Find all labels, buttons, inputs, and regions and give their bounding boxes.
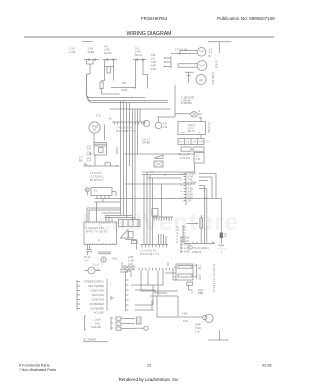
connector circle CB [155, 122, 161, 128]
svg-text:U: U [98, 238, 100, 242]
svg-text:BBB: BBB [198, 292, 203, 295]
stub y185 [199, 186, 205, 244]
legend rows [84, 281, 104, 311]
solenoid lead [101, 89, 103, 95]
elbow wire y198 [95, 198, 221, 232]
y172 dots [164, 174, 166, 176]
svg-text:T-BK: T-BK [151, 55, 157, 57]
connector column CC1 [185, 172, 187, 205]
thermistor TH [200, 218, 203, 228]
bottom legend bracket right [111, 317, 113, 330]
lattice wire 7 [150, 271, 178, 317]
B5 top hatch [86, 222, 115, 224]
B4 drop [194, 163, 196, 172]
double wire [98, 252, 111, 254]
door lamp feed [175, 85, 191, 114]
wires to lamp L2 [178, 64, 197, 67]
arrow wire NR [111, 87, 136, 89]
svg-text:R-DR-BK: R-DR-BK [181, 101, 192, 105]
wire into compressor [104, 125, 106, 141]
switch S2 wiring [102, 60, 114, 82]
svg-text:L1 BK: L1 BK [94, 319, 101, 322]
svg-text:W-BK: W-BK [88, 50, 95, 54]
LC leads [84, 270, 101, 272]
main harness elbow [87, 74, 146, 98]
right label column ticks [181, 236, 183, 253]
svg-text:G W R B: G W R B [180, 157, 190, 160]
cell row B3a [181, 147, 191, 151]
junction dot [179, 53, 181, 55]
lattice wire 4 [135, 285, 153, 305]
sub box feed [161, 184, 163, 217]
svg-text:W R G Y K O B N T: W R G Y K O B N T [86, 231, 108, 234]
svg-text:BK: BK [79, 159, 83, 163]
wire right y180 [199, 180, 208, 182]
tick row R2 [139, 268, 176, 271]
TX left pins [165, 267, 176, 277]
B0 right jog [112, 192, 116, 197]
diode wiring [189, 285, 193, 293]
box B6 [119, 220, 141, 227]
socket labels [195, 324, 201, 334]
svg-text:ICE MAKER: ICE MAKER [90, 308, 104, 311]
svg-text:15A: 15A [224, 233, 227, 238]
svg-text:8 1: 8 1 [94, 190, 98, 193]
ground symbol [208, 330, 229, 340]
CM lead [93, 133, 95, 142]
svg-text:JC TIMET: JC TIMET [83, 338, 97, 342]
bracket mark [111, 296, 114, 300]
control box B1 [178, 122, 206, 135]
cell row B3b [193, 147, 204, 151]
CC2 ticks [183, 227, 186, 242]
svg-text:COMP: COMP [115, 147, 118, 155]
bottom feed wire [157, 296, 203, 317]
wire y166 [83, 163, 120, 166]
svg-text:DEF HEATER: DEF HEATER [88, 285, 104, 288]
label cluster D [135, 47, 142, 57]
bottom wires y178 [147, 177, 181, 179]
label PLUG [189, 246, 209, 254]
TX primary bar [178, 266, 192, 269]
sensor box [154, 161, 163, 167]
fuse row 2 [116, 322, 121, 325]
svg-text:AC LINE: AC LINE [94, 312, 104, 315]
R2 tick stub [167, 262, 169, 266]
svg-text:2-NR: 2-NR [121, 88, 127, 92]
svg-text:1 TM 4 1M: 1 TM 4 1M [175, 49, 187, 52]
diode box [187, 282, 193, 285]
svg-text:POWER SUPPLY: POWER SUPPLY [84, 281, 104, 284]
svg-text:5 1 6 2 0 9 7 1 3 4 8 2 6 1: 5 1 6 2 0 9 7 1 3 4 8 2 6 1 [212, 264, 215, 293]
B1 corner marks [180, 132, 201, 134]
svg-text:GND GR: GND GR [91, 326, 101, 329]
svg-text:EVAP FAN: EVAP FAN [211, 73, 215, 86]
plug symbol [219, 245, 225, 247]
label column E [151, 55, 157, 71]
diode labels [198, 289, 203, 295]
svg-text:6-BR: 6-BR [184, 251, 190, 254]
earth symbol at B0 [85, 188, 89, 192]
svg-text:WIRING DIAGRAM: WIRING DIAGRAM [127, 31, 172, 37]
svg-text:3-BR: 3-BR [151, 66, 157, 68]
lattice wire 3 [131, 271, 163, 286]
bottom wires y172 [142, 171, 195, 173]
svg-text:W G O B R Y T N: W G O B R Y T N [116, 130, 136, 133]
connector cells B2 [178, 139, 204, 145]
TX secondary bar [178, 274, 192, 277]
svg-text:2 R: 2 R [188, 200, 192, 203]
B5 pin labels [86, 227, 108, 234]
right hook wire [120, 262, 135, 272]
svg-text:BK W R G Y: BK W R G Y [90, 179, 104, 182]
pin box B4 [194, 153, 204, 164]
bottom legend rows [91, 312, 104, 330]
svg-text:Publication No: 5995507109: Publication No: 5995507109 [217, 16, 275, 21]
svg-text:M: M [200, 78, 203, 82]
svg-text:2-OR: 2-OR [151, 62, 157, 64]
switch S1 [84, 59, 99, 61]
compressor motor CM [89, 122, 100, 133]
svg-text:SR: SR [122, 81, 126, 85]
relay dark dot [90, 153, 92, 155]
CC2 labels [177, 226, 180, 244]
y166 junctions [89, 165, 91, 167]
dispenser solenoid box [100, 82, 103, 89]
switch S3 [133, 59, 147, 61]
pin grid TG1 [90, 172, 105, 182]
header rule [24, 36, 274, 38]
wire DL1 to control box [200, 117, 202, 122]
R1 feed stubs [159, 234, 167, 245]
bus vertical 8 [139, 109, 141, 122]
B2 feed [200, 135, 202, 139]
label cluster B [88, 47, 95, 55]
svg-text:N W: N W [183, 319, 189, 323]
lamp circle LC [88, 267, 95, 274]
small bulb [144, 326, 148, 330]
bus vertical 4 [129, 102, 131, 166]
motor tee wire [185, 72, 194, 83]
wire right y177 [199, 177, 212, 198]
transformer box TX [176, 264, 193, 280]
terminal strip TS1 [112, 122, 146, 125]
svg-text:EVAP FAN: EVAP FAN [92, 294, 104, 297]
B5 lower leads [88, 245, 90, 250]
lamp L2 [197, 61, 207, 71]
svg-text:4-GR: 4-GR [151, 69, 157, 71]
svg-text:4 BK: 4 BK [182, 312, 188, 316]
lattice wire 2 [147, 271, 149, 286]
motor M1 [196, 75, 206, 85]
svg-text:L-GR: L-GR [69, 50, 75, 54]
B0 bottom ticks [97, 196, 109, 200]
plug lead [220, 238, 222, 244]
wire right y173 [199, 174, 216, 199]
overload bracket 1 [87, 146, 91, 149]
svg-text:K W: K W [196, 158, 201, 161]
svg-text:* Non-Illustrated Parts: * Non-Illustrated Parts [19, 368, 56, 372]
y198 junction [204, 198, 206, 200]
bus vertical 3 [126, 102, 128, 218]
svg-text:BK-W: BK-W [135, 53, 142, 57]
main control box B5 [84, 222, 117, 245]
svg-text:W-OR: W-OR [104, 51, 111, 55]
RB bottom lead [94, 155, 96, 166]
B5 bottom hatch [86, 243, 115, 245]
svg-text:23: 23 [147, 364, 151, 368]
bottom wires y174 [142, 174, 186, 176]
svg-text:51 K20: 51 K20 [215, 60, 219, 69]
svg-text:5 0 3 BD: 5 0 3 BD [207, 123, 211, 133]
svg-text:1 W: 1 W [195, 331, 200, 334]
junction dots y154 [178, 153, 180, 155]
op-amp triangle TR2 [121, 230, 129, 239]
L1 labels [209, 48, 213, 58]
TR2 wiring [125, 240, 137, 250]
L mark [85, 163, 88, 165]
long wire y154 [125, 153, 196, 155]
TS1 labels [116, 127, 136, 133]
bus vertical 1 [120, 101, 122, 215]
svg-text:W K R G B Y T N: W K R G B Y T N [140, 253, 159, 256]
door lamp oval DL1 [191, 112, 198, 117]
switch S2 [103, 59, 118, 61]
CB stem [157, 113, 175, 122]
svg-text:COND FAN: COND FAN [91, 299, 104, 302]
TR2 box [129, 232, 134, 239]
label TA [79, 156, 83, 163]
connector E1 pin dots [164, 57, 166, 67]
socket circle pair [203, 315, 207, 319]
LC filament [90, 269, 94, 270]
LC top marks [93, 264, 103, 267]
CC1 left labels [181, 173, 183, 200]
svg-text:C 8: C 8 [96, 114, 101, 118]
svg-text:PLUG (2011): PLUG (2011) [194, 246, 209, 250]
svg-text:Rendered by LeadVenture, Inc.: Rendered by LeadVenture, Inc. [119, 377, 180, 382]
B1 inner text [188, 124, 196, 133]
wires y215 y217 [105, 216, 135, 222]
TX right bracket [194, 264, 197, 279]
wire y213 [102, 212, 121, 214]
legend divider [106, 279, 108, 311]
connector column CC2 [182, 225, 184, 244]
label cluster A [69, 47, 75, 55]
TR2 sub box [132, 241, 138, 244]
lattice wire 6 [173, 271, 178, 281]
DL1 labels [199, 109, 203, 119]
R1 pin labels [140, 250, 159, 257]
B2 cell text [180, 142, 205, 144]
svg-text:02:08: 02:08 [262, 364, 272, 368]
lamp L1 [197, 48, 206, 57]
svg-text:2 1A: 2 1A [88, 47, 94, 51]
harness wire 2 [87, 95, 168, 101]
underline [83, 341, 108, 343]
lattice wire 8 [135, 290, 167, 293]
fuse row 3 [116, 327, 121, 330]
switch S3 wiring [136, 60, 148, 89]
overload bracket 2 [87, 152, 91, 155]
wire top-left stub [82, 41, 93, 43]
svg-text:2-W: 2-W [163, 125, 168, 129]
harness wire 4 [110, 108, 170, 110]
connector circle CA [143, 120, 149, 126]
heater element [137, 317, 142, 324]
svg-text:N-W: N-W [112, 258, 118, 261]
arrow into column [187, 223, 198, 225]
sensor triangle TR1 [154, 155, 163, 158]
TH leads [200, 215, 202, 244]
overload bracket 3 [87, 158, 91, 161]
lower text 3 [128, 256, 134, 266]
lower text row 1 [84, 256, 91, 263]
label cluster C [104, 45, 111, 55]
svg-text:FRS6HKR6J: FRS6HKR6J [141, 16, 167, 21]
bottom bus y243 [184, 242, 215, 244]
bus vertical 7 [137, 109, 139, 154]
lattice wire 5 [126, 271, 132, 277]
svg-text:1 2V: 1 2V [69, 47, 75, 51]
svg-text:COMP RUN: COMP RUN [90, 290, 104, 293]
svg-text:BD 57: BD 57 [188, 130, 196, 133]
connector E1 [165, 57, 172, 69]
right label column text [184, 237, 191, 254]
wires to lamp L1 [171, 51, 197, 54]
CC1 ticks [184, 174, 187, 201]
svg-text:OR-BK: OR-BK [142, 141, 150, 145]
fuse F1 [220, 233, 223, 239]
relay box RB [94, 143, 107, 156]
bus vertical 5 [132, 109, 134, 222]
svg-text:LINE IN: LINE IN [192, 250, 201, 254]
legend tick column [77, 280, 80, 310]
small box B0 [91, 188, 112, 196]
CC1 right labels [188, 173, 197, 203]
svg-text:0 V: 0 V [84, 260, 88, 263]
DR label rows [181, 96, 194, 106]
fuse row 1 [116, 317, 121, 320]
hatch row [152, 217, 173, 221]
label rows mid TC6 [142, 138, 150, 145]
stub wires bottom [135, 300, 154, 310]
TX right labels [198, 264, 202, 280]
relay sub box [152, 209, 158, 217]
bottom legend bracket left [85, 316, 87, 330]
drop verticals to lower row [144, 172, 153, 245]
harness wire 3 [88, 96, 168, 102]
svg-text:# Functional Parts: # Functional Parts [19, 364, 50, 368]
terminal row R1 [140, 245, 168, 248]
svg-text:DISPENSER: DISPENSER [90, 303, 105, 306]
wires y208 y210 [87, 208, 121, 222]
RB inner capacitor [99, 148, 104, 153]
legend bus vertical [126, 272, 129, 311]
stub y188 [199, 189, 207, 244]
top right tee wire [208, 42, 231, 53]
bus vertical 2 [123, 101, 125, 215]
wire y184 [125, 183, 195, 185]
switch S1 wiring [87, 60, 94, 95]
wire y94 [102, 93, 120, 95]
connector circles row [124, 266, 135, 269]
bus vertical 6 [134, 109, 136, 220]
lattice wire 1 [141, 271, 178, 292]
small meter symbol [101, 257, 106, 262]
svg-text:A2: A2 [109, 117, 113, 121]
B0 drops [94, 199, 121, 222]
pin grid TG2 [180, 154, 190, 161]
capacitor C1 [86, 250, 92, 255]
plug dashes [218, 248, 227, 250]
